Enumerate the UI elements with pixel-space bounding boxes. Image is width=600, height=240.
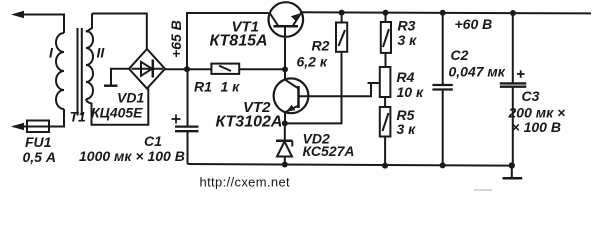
svg-text:R4: R4 (397, 69, 415, 85)
svg-text:3 к: 3 к (398, 32, 418, 48)
svg-text:С3: С3 (522, 88, 540, 104)
svg-text:1 к: 1 к (221, 79, 241, 95)
resistor R1 (211, 64, 239, 74)
svg-text:КЦ405Е: КЦ405Е (91, 105, 143, 121)
svg-text:3 к: 3 к (397, 121, 417, 137)
wire: winding II bottom to bridge AC2 (86, 89, 148, 125)
VD1 internal diode (132, 68, 164, 70)
node: VT1 base / VT2 collector junction (282, 66, 288, 72)
svg-text:R2: R2 (312, 38, 330, 54)
resistor R5 (380, 107, 391, 137)
transformer T1 primary winding I (56, 33, 64, 109)
svg-text:R1: R1 (194, 79, 212, 95)
capacitor C1 (187, 69, 189, 126)
svg-text:6,2 к: 6,2 к (297, 54, 328, 70)
wire: bridge plus to node +65V (165, 68, 211, 70)
wire: primary bottom to fuse (13, 109, 64, 127)
bridge rectifier VD1 diamond (129, 49, 165, 89)
transformer T1 secondary winding II (86, 14, 92, 33)
wire: winding II top to bridge AC1 (92, 14, 147, 50)
transformer T1 core (77, 28, 79, 116)
transistor VT1 (269, 2, 304, 37)
svg-text:+65 В: +65 В (168, 20, 184, 58)
node: VT2 emitter / VD2 / R2 (282, 120, 288, 126)
node: C3 / ground junction (509, 162, 515, 168)
resistor R2 (336, 23, 347, 52)
svg-text:0,047 мк: 0,047 мк (449, 64, 506, 80)
svg-text:× 100 В: × 100 В (512, 119, 561, 135)
transistor VT2 (284, 69, 286, 79)
capacitor C2 (442, 13, 444, 85)
svg-text:I: I (49, 45, 54, 61)
chassis ground symbol (511, 166, 513, 178)
svg-text:0,5 А: 0,5 А (23, 149, 56, 165)
svg-text:Т1: Т1 (70, 109, 87, 125)
C1 plus sign (172, 118, 181, 120)
svg-text:КТ3102А: КТ3102А (216, 114, 283, 131)
node +65V junction dot (184, 66, 190, 72)
ground stub at bridge minus (111, 69, 129, 85)
C3 plus sign (517, 73, 525, 75)
fuse FU1 (27, 121, 49, 133)
svg-text:+60 В: +60 В (455, 16, 493, 32)
svg-text:КС527А: КС527А (303, 143, 355, 159)
svg-text:10 к: 10 к (397, 84, 424, 100)
bottom rail (188, 164, 512, 166)
svg-text:VD1: VD1 (117, 90, 144, 106)
wire: mains input top lead (20, 14, 64, 16)
svg-text:1000 мк × 100 В: 1000 мк × 100 В (79, 148, 185, 164)
svg-text:II: II (97, 45, 106, 61)
capacitor C3 (512, 13, 514, 83)
top rail +60V side (302, 12, 592, 13)
zener diode VD2 (284, 123, 286, 141)
wire: +65V riser to top rail (187, 13, 269, 69)
svg-text:КТ815А: КТ815А (210, 33, 268, 50)
svg-text:http://cxem.net: http://cxem.net (200, 174, 291, 189)
node: VD2 to bottom rail (282, 162, 288, 168)
potentiometer R4 (380, 67, 391, 97)
wire: VT2 base to R4 wiper (299, 83, 372, 96)
svg-text:С2: С2 (451, 47, 469, 63)
resistor R3 (381, 22, 391, 53)
svg-text:FU1: FU1 (25, 134, 52, 150)
url watermark (474, 189, 492, 191)
svg-text:С1: С1 (144, 133, 162, 149)
